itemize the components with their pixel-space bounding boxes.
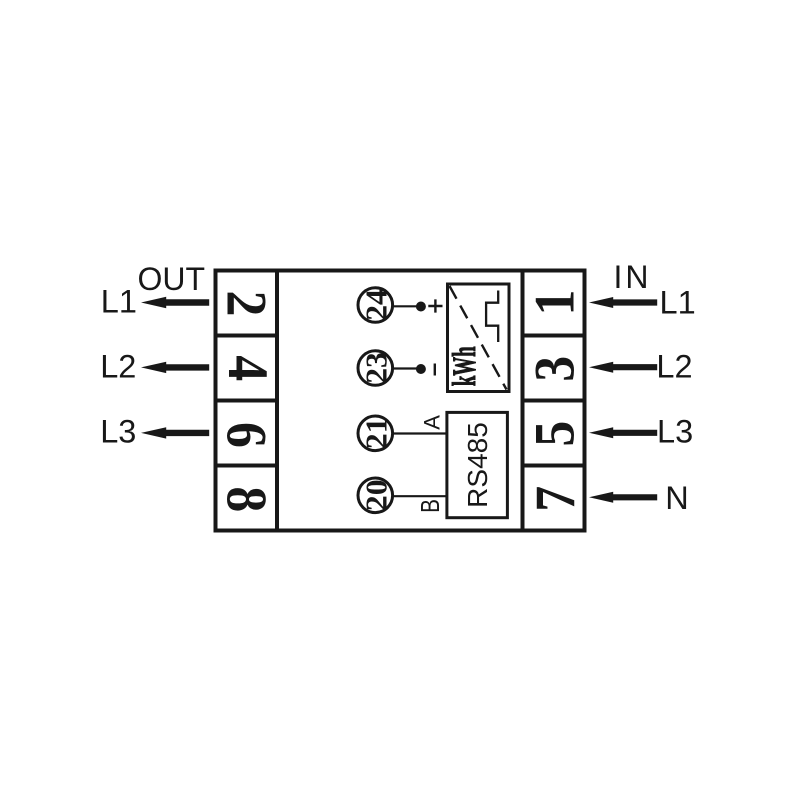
wire 20 to RS485 (B) <box>393 495 446 497</box>
svg-text:3: 3 <box>522 356 586 382</box>
svg-text:L2: L2 <box>656 348 692 384</box>
right terminal divider 3/5 <box>521 399 587 403</box>
svg-text:6: 6 <box>215 422 279 448</box>
svg-text:A: A <box>420 415 445 430</box>
svg-text:IN: IN <box>614 259 652 295</box>
node 23 circle <box>358 351 393 386</box>
L1 out arrow <box>141 297 209 308</box>
svg-text:L1: L1 <box>101 283 137 319</box>
svg-text:B: B <box>416 499 445 513</box>
svg-text:2: 2 <box>215 291 279 317</box>
right terminal divider 5/7 <box>521 464 587 468</box>
junction dot - <box>416 364 426 374</box>
N in arrow <box>589 492 657 503</box>
svg-text:23: 23 <box>359 352 394 384</box>
L2 out arrow <box>141 362 209 373</box>
right terminal divider 1/3 <box>521 334 587 338</box>
svg-text:L3: L3 <box>100 413 136 449</box>
kWh box dashed diagonal <box>450 286 507 390</box>
L3 in arrow <box>589 427 657 438</box>
wire 21 to RS485 (A) <box>393 432 446 434</box>
node 24 circle <box>358 288 393 323</box>
L3 out arrow <box>141 427 209 438</box>
node 21 circle <box>358 416 393 451</box>
svg-text:kWh: kWh <box>446 346 483 386</box>
junction dot + <box>416 302 426 312</box>
pulse waveform symbol <box>486 291 498 343</box>
svg-text:OUT: OUT <box>138 261 206 297</box>
right terminal column inner edge <box>521 269 525 533</box>
L2 in arrow <box>589 362 657 373</box>
svg-text:L1: L1 <box>660 285 696 321</box>
wire 24 to + dot <box>393 305 421 307</box>
svg-text:4: 4 <box>217 355 281 381</box>
svg-text:21: 21 <box>359 417 394 449</box>
svg-text:8: 8 <box>215 486 279 512</box>
left terminal divider 4/6 <box>214 399 280 403</box>
minus sign (rotated) <box>434 364 436 376</box>
svg-text:24: 24 <box>359 289 394 321</box>
svg-text:20: 20 <box>359 479 394 511</box>
node 20 circle <box>358 478 393 513</box>
svg-text:5: 5 <box>522 421 586 447</box>
left terminal divider 6/8 <box>214 464 280 468</box>
left terminal column inner edge <box>275 269 279 533</box>
wire 23 to - dot <box>393 367 421 369</box>
svg-text:1: 1 <box>522 290 586 316</box>
RS485 box <box>447 412 508 517</box>
plus sign <box>428 299 442 312</box>
svg-text:7: 7 <box>523 486 587 512</box>
svg-text:N: N <box>665 480 688 516</box>
L1 in arrow <box>589 297 657 308</box>
kWh pulse output box <box>448 284 510 392</box>
svg-text:L3: L3 <box>657 413 693 449</box>
left terminal divider 2/4 <box>214 334 280 338</box>
svg-text:L2: L2 <box>100 348 136 384</box>
meter body outline <box>216 271 585 531</box>
svg-text:RS485: RS485 <box>462 422 493 508</box>
